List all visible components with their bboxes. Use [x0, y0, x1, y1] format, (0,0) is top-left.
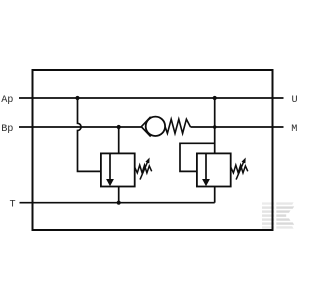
wire M line right segment [191, 126, 284, 128]
svg-text:Ap: Ap [1, 95, 13, 106]
node junction on U line [213, 96, 217, 100]
check valve spring [165, 119, 190, 133]
wire Ap-U line [19, 97, 284, 99]
wire RV2 pilot line [180, 143, 215, 171]
svg-text:M: M [291, 124, 297, 135]
enclosure boundary [33, 70, 273, 230]
wire pilot line to RV1 with hop over Bp [78, 98, 101, 171]
wire U to RV2 inlet [214, 98, 216, 153]
relief valve RV1 adjustable spring [135, 165, 152, 173]
wire Bp to RV1 inlet [118, 127, 120, 153]
relief valve RV2 body [197, 153, 231, 186]
check valve seat [141, 117, 150, 137]
wire RV2 outlet to T [214, 187, 216, 203]
wire Bp line left segment [19, 126, 141, 128]
relief valve RV2 flow arrow [205, 154, 207, 180]
svg-text:Bp: Bp [1, 124, 13, 135]
check valve ball [146, 117, 165, 136]
node junction on T line [117, 201, 121, 205]
relief valve RV1 flow arrow [109, 154, 111, 180]
wire RV1 outlet to T [118, 187, 120, 203]
svg-text:U: U [292, 95, 298, 106]
node junction on Bp line [117, 125, 121, 129]
relief valve RV2 adjustable spring [231, 165, 248, 173]
node junction on Ap line [75, 96, 79, 100]
wire T line [20, 202, 215, 204]
node junction on M line [213, 125, 217, 129]
watermark logo [262, 202, 294, 228]
svg-text:T: T [10, 199, 16, 210]
relief valve RV1 body [101, 153, 135, 186]
